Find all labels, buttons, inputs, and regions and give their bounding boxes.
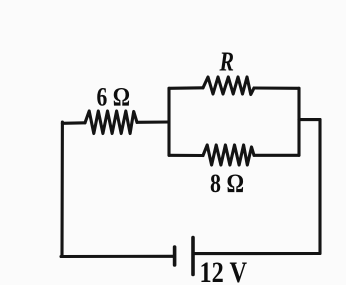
wire: resistor R3 to parallel-box bottom-right corner [254, 154, 299, 157]
wire: bottom-right horizontal from battery positive plate [195, 252, 321, 255]
resistor R2 (R) zigzag [203, 77, 254, 95]
wire: right vertical [318, 120, 321, 254]
battery B1 positive plate (long) [191, 238, 195, 275]
wire: resistor R2 to parallel-box top-right corner [254, 86, 299, 89]
wire: parallel-box right vertical rail [297, 88, 300, 155]
wire: parallel-box bottom-left lead to resistor R3 [169, 154, 203, 157]
svg-text:8 Ω: 8 Ω [210, 169, 244, 198]
wire: stub from right vertical to parallel-box right rail (node B) [299, 118, 320, 121]
wire: parallel-box left vertical rail [167, 88, 170, 155]
resistor R3 (8 ohm) zigzag [203, 145, 254, 165]
wire: parallel-box top-left lead to resistor R2 [169, 86, 203, 90]
wire: left vertical (top-left corner down to bottom-left corner) [60, 122, 64, 257]
wire: from R1 to parallel-box left rail (node A) [137, 120, 169, 123]
svg-text:6 Ω: 6 Ω [97, 83, 131, 112]
wire: left horizontal lead into resistor R1 [62, 121, 85, 125]
battery B1 negative plate (short) [173, 247, 177, 265]
resistor R1 (6 ohm) zigzag [85, 111, 137, 134]
svg-text:12 V: 12 V [200, 256, 248, 285]
svg-text:R: R [219, 46, 234, 76]
wire: bottom-left horizontal to battery negative plate [61, 255, 173, 258]
